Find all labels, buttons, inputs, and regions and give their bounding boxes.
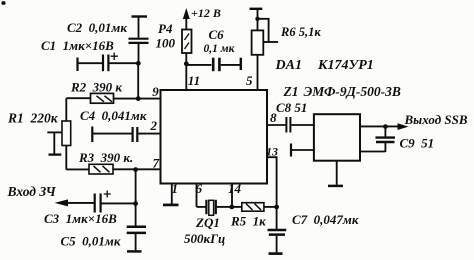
svg-text:Z1: Z1: [283, 84, 299, 99]
svg-text:R5 1к: R5 1к: [230, 214, 266, 229]
svg-text:1: 1: [172, 181, 179, 196]
svg-text:13: 13: [266, 144, 278, 158]
svg-text:R3 390 к.: R3 390 к.: [78, 150, 133, 165]
svg-text:Выход SSB: Выход SSB: [404, 112, 468, 127]
svg-text:100: 100: [156, 36, 176, 51]
svg-text:2: 2: [150, 118, 158, 133]
svg-text:ЭМФ-9Д-500-3В: ЭМФ-9Д-500-3В: [304, 84, 401, 99]
svg-text:R6 5,1к: R6 5,1к: [280, 25, 321, 39]
svg-text:+12 В: +12 В: [191, 6, 221, 20]
svg-text:5: 5: [246, 73, 253, 88]
svg-text:C5 0,01мк: C5 0,01мк: [61, 233, 121, 248]
svg-text:C3 1мк×16В: C3 1мк×16В: [44, 211, 117, 226]
svg-text:DA1: DA1: [275, 58, 302, 73]
svg-text:14: 14: [228, 181, 242, 196]
svg-text:500кГц: 500кГц: [184, 231, 225, 246]
svg-text:C1 1мк×16В: C1 1мк×16В: [41, 38, 114, 53]
svg-text:С9 51: С9 51: [400, 135, 435, 150]
svg-text:ZQ1: ZQ1: [195, 215, 220, 230]
svg-text:C4 0,041мк: C4 0,041мк: [80, 108, 147, 123]
svg-text:R2 390 к: R2 390 к: [70, 80, 122, 95]
svg-text:R1 220к: R1 220к: [7, 111, 59, 126]
svg-text:9: 9: [152, 84, 159, 99]
svg-text:К174УР1: К174УР1: [317, 58, 374, 73]
svg-text:11: 11: [188, 73, 200, 88]
svg-text:Р4: Р4: [158, 21, 173, 36]
svg-text:Вход ЗЧ: Вход ЗЧ: [7, 184, 57, 199]
svg-text:0,1 мк: 0,1 мк: [204, 43, 236, 55]
svg-text:С6: С6: [209, 27, 225, 42]
svg-text:6: 6: [196, 181, 203, 196]
svg-text:С8 51: С8 51: [276, 100, 307, 115]
svg-text:C2 0,01мк: C2 0,01мк: [67, 20, 127, 35]
svg-text:7: 7: [153, 156, 160, 171]
svg-text:8: 8: [270, 110, 277, 125]
svg-text:С7 0,047мк: С7 0,047мк: [292, 212, 359, 227]
